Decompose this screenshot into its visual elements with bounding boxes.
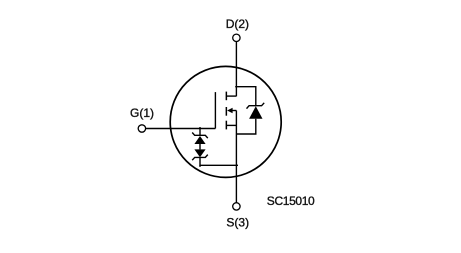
wire zener-stack drop from gate: [199, 127, 201, 135]
wire zener tick: [199, 165, 201, 167]
wire body-diode branch bottom: [236, 119, 255, 134]
terminal S(3): [233, 203, 240, 210]
svg-text:D(2): D(2): [226, 17, 249, 31]
diode Z1 cathode bar: [192, 133, 208, 139]
terminal D(2): [233, 34, 240, 41]
wire zener-stack to source: [200, 157, 238, 165]
svg-text:G(1): G(1): [130, 106, 154, 120]
wire source contact: [227, 124, 237, 126]
diode Z2 triangle: [194, 149, 205, 157]
diode D1 body zener triangle: [249, 106, 262, 119]
wire source: [235, 111, 237, 203]
diode Z2 cathode bar: [192, 155, 208, 161]
wire gate: [146, 128, 216, 130]
svg-text:SC15010: SC15010: [267, 194, 315, 208]
terminal G(1): [138, 125, 145, 132]
svg-text:S(3): S(3): [226, 216, 249, 230]
wire drain: [235, 42, 237, 97]
wire body-diode branch top: [235, 87, 256, 106]
mosfet Q1 channel bar source: [225, 121, 227, 130]
mosfet Q1 channel bar drain: [225, 92, 227, 101]
wire body contact: [232, 110, 237, 112]
diode Z1 triangle: [194, 136, 205, 144]
transistor envelope circle: [170, 66, 281, 177]
wire between zeners: [199, 144, 201, 149]
mosfet Q1 body arrow: [227, 108, 233, 114]
wire drain contact: [227, 95, 237, 97]
mosfet Q1 gate plate: [214, 92, 216, 128]
mosfet Q1 channel bar body: [225, 107, 227, 116]
diode D1 zener cathode bar: [247, 103, 265, 109]
